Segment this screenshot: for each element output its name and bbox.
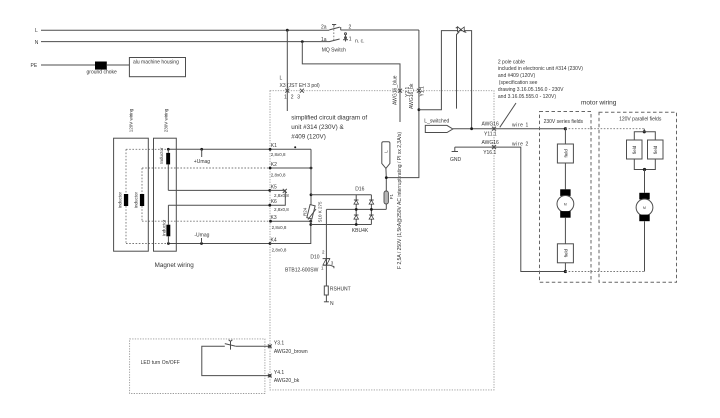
svg-text:MQ Switch: MQ Switch bbox=[322, 48, 346, 54]
svg-text:Y16.1: Y16.1 bbox=[483, 150, 496, 156]
svg-text:simplified circuit diagram of: simplified circuit diagram of bbox=[291, 115, 367, 122]
svg-text:F1: F1 bbox=[389, 194, 394, 200]
svg-text:K1: K1 bbox=[271, 143, 277, 149]
svg-text:AWG16: AWG16 bbox=[482, 121, 500, 127]
svg-text:AWG16_blue: AWG16_blue bbox=[392, 75, 398, 105]
svg-text:field: field bbox=[563, 149, 568, 158]
svg-text:S10 K 275: S10 K 275 bbox=[318, 201, 323, 223]
svg-text:PE: PE bbox=[31, 63, 38, 69]
svg-text:field: field bbox=[563, 249, 568, 258]
svg-text:N: N bbox=[330, 301, 334, 307]
svg-text:2,8x0,8: 2,8x0,8 bbox=[272, 247, 287, 252]
svg-text:Inductor: Inductor bbox=[118, 192, 123, 209]
svg-text:230V wiring: 230V wiring bbox=[163, 108, 168, 132]
svg-text:alu machine housing: alu machine housing bbox=[133, 60, 179, 66]
svg-text:X3 (JST EH 3 pol): X3 (JST EH 3 pol) bbox=[280, 83, 321, 89]
svg-text:field: field bbox=[632, 145, 637, 154]
svg-text:AWG16: AWG16 bbox=[482, 140, 500, 146]
svg-text:AWG16_bk: AWG16_bk bbox=[409, 83, 415, 109]
svg-text:wire 1: wire 1 bbox=[512, 122, 529, 128]
svg-text:2,8x0,8: 2,8x0,8 bbox=[274, 207, 289, 212]
svg-text:Y4.1: Y4.1 bbox=[274, 370, 285, 376]
svg-text:K3: K3 bbox=[271, 215, 277, 221]
svg-text:BTB12-600SW: BTB12-600SW bbox=[285, 268, 319, 274]
svg-text:2,8x0,8: 2,8x0,8 bbox=[274, 193, 289, 198]
svg-text:-Umag: -Umag bbox=[194, 232, 209, 238]
svg-text:M: M bbox=[643, 206, 646, 210]
svg-text:Inductor: Inductor bbox=[133, 192, 138, 209]
svg-text:K2: K2 bbox=[271, 162, 277, 168]
svg-text:1: 1 bbox=[284, 94, 287, 100]
svg-text:Y11.1: Y11.1 bbox=[484, 132, 497, 138]
svg-text:M: M bbox=[564, 202, 567, 206]
svg-text:field: field bbox=[653, 145, 658, 154]
svg-text:and 3.16.05.555.0 - 120V): and 3.16.05.555.0 - 120V) bbox=[498, 94, 556, 100]
svg-text:D10: D10 bbox=[310, 254, 319, 260]
svg-text:Y3.1: Y3.1 bbox=[274, 341, 285, 347]
svg-text:L_switched: L_switched bbox=[424, 119, 449, 125]
svg-text:L: L bbox=[280, 76, 283, 82]
svg-text:1: 1 bbox=[349, 36, 352, 42]
svg-text:AWG20_bk: AWG20_bk bbox=[274, 378, 300, 384]
svg-text:AWG20_brown: AWG20_brown bbox=[274, 349, 308, 355]
svg-text:wire 2: wire 2 bbox=[512, 141, 529, 147]
svg-text:K6: K6 bbox=[271, 199, 277, 205]
svg-text:2,8x0,8: 2,8x0,8 bbox=[271, 173, 286, 178]
svg-text:Magnet wiring: Magnet wiring bbox=[155, 262, 195, 269]
svg-text:2 pole cable: 2 pole cable bbox=[498, 59, 525, 65]
svg-text:RSHUNT: RSHUNT bbox=[330, 287, 351, 293]
svg-text:Inductor: Inductor bbox=[161, 219, 166, 236]
svg-text:120V parallel fields: 120V parallel fields bbox=[619, 116, 662, 122]
svg-text:Y1.1: Y1.1 bbox=[420, 86, 426, 97]
svg-text:Inductor: Inductor bbox=[159, 147, 164, 164]
svg-text:F 2,5A / 250V (1,5kA@250V AC i: F 2,5A / 250V (1,5kA@250V AC interrupt r… bbox=[397, 132, 403, 269]
svg-text:L: L bbox=[35, 28, 38, 34]
svg-text:included in electronic unit #3: included in electronic unit #314 (230V) bbox=[498, 66, 583, 72]
svg-text:N: N bbox=[35, 40, 39, 46]
svg-text:2,8x0,8: 2,8x0,8 bbox=[272, 225, 287, 230]
svg-text:+Umag: +Umag bbox=[194, 159, 210, 165]
svg-text:2,8x0,8: 2,8x0,8 bbox=[271, 152, 286, 157]
svg-text:GND: GND bbox=[450, 157, 462, 163]
svg-text:K5: K5 bbox=[271, 184, 277, 190]
svg-text:230V series fields: 230V series fields bbox=[544, 119, 584, 125]
svg-text:LED turn On/OFF: LED turn On/OFF bbox=[141, 360, 180, 366]
svg-text:motor wiring: motor wiring bbox=[581, 99, 617, 106]
svg-text:KBU4K: KBU4K bbox=[352, 228, 369, 234]
svg-text:drawing 3.16.05.156.0 - 230V: drawing 3.16.05.156.0 - 230V bbox=[498, 87, 564, 93]
svg-text:R24: R24 bbox=[303, 207, 308, 216]
svg-text:1a: 1a bbox=[321, 37, 327, 43]
svg-text:2: 2 bbox=[291, 94, 294, 100]
svg-text:2a: 2a bbox=[321, 25, 327, 31]
svg-text:#409 (120V): #409 (120V) bbox=[291, 134, 326, 141]
svg-text:unit #314 (230V) &: unit #314 (230V) & bbox=[291, 124, 344, 131]
svg-text:(specification see: (specification see bbox=[499, 80, 538, 86]
svg-text:n. c.: n. c. bbox=[355, 38, 364, 44]
svg-text:K4: K4 bbox=[271, 238, 277, 244]
svg-text:D16: D16 bbox=[355, 186, 364, 192]
svg-text:120V wiring: 120V wiring bbox=[128, 108, 133, 132]
svg-text:3: 3 bbox=[297, 94, 300, 100]
svg-text:and #409 (120V): and #409 (120V) bbox=[498, 73, 536, 79]
svg-text:ground choke: ground choke bbox=[87, 70, 118, 76]
